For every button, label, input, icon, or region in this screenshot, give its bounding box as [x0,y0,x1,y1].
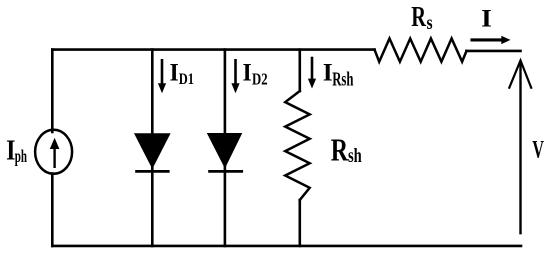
label Rsh (value label of shunt resistor) [331,133,362,168]
label Iph [6,134,27,167]
svg-text:D2: D2 [252,71,268,89]
current IRsh arrow (points down) [308,58,316,89]
label IRsh [323,58,354,91]
label Rs (value label of series resistor) [411,2,432,34]
wire: diode D2 branch [224,50,227,246]
svg-text:ph: ph [15,148,27,167]
voltage V arrow shaft (right output branch) [519,62,521,233]
diode D1 anode triangle [134,133,171,169]
wire: resistor Rsh upper lead [298,50,301,91]
svg-text:I: I [481,5,492,33]
wire: top bus (node joining Iph, D1, D2, Rsh to Rs) [52,48,374,51]
svg-text:s: s [427,11,433,33]
wire: top right segment from Rs to output terminal [467,50,521,53]
svg-text:I: I [323,58,333,87]
wire: diode D1 branch [151,50,154,246]
svg-text:Rsh: Rsh [332,68,353,90]
label V (output voltage) [532,135,544,163]
svg-text:sh: sh [348,144,362,167]
svg-text:R: R [331,133,349,168]
diode D2 anode triangle [207,133,243,169]
resistor Rs zigzag body (series resistor) [375,39,467,62]
diode D1 cathode bar [135,170,169,173]
current I arrow (points right) [472,36,511,44]
wire: bottom bus (common return) [52,245,521,248]
current ID2 arrow (points down) [231,60,239,93]
current ID1 arrow (points down) [158,60,166,93]
svg-text:I: I [243,59,252,87]
diode D2 cathode bar [208,170,243,173]
label ID1 [170,59,195,89]
wire: left branch upper segment [51,50,54,132]
svg-text:R: R [411,2,426,33]
wire: resistor Rsh lower lead [298,200,301,246]
svg-text:V: V [532,135,544,163]
current source arrow (points up) [50,138,60,167]
label ID2 [243,59,268,89]
voltage V open arrowhead (points up) [509,60,531,87]
resistor Rsh zigzag body [285,91,310,200]
current source Iph circle [35,130,72,174]
svg-text:I: I [170,59,179,87]
wire: left branch lower segment [51,174,54,246]
svg-text:D1: D1 [179,71,194,89]
svg-text:I: I [6,134,15,167]
label I (output current) [481,5,492,33]
